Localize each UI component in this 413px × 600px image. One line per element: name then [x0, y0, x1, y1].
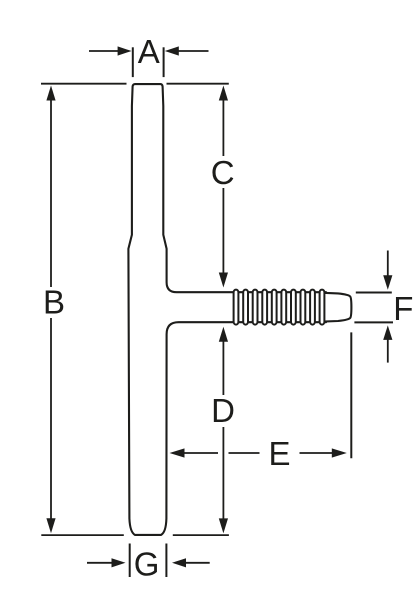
- svg-text:B: B: [43, 284, 65, 321]
- dim B arrow line upper: [50, 99, 52, 287]
- svg-text:D: D: [211, 392, 235, 429]
- dim G right arrow: [184, 562, 210, 564]
- dim G left tick: [129, 544, 131, 578]
- dim E line right segment + arrow: [300, 452, 334, 454]
- bottom extension line right segment: [173, 534, 229, 536]
- dim E arrow left: [183, 452, 218, 454]
- dim C arrow line lower: [222, 188, 224, 274]
- dim A right tick: [163, 47, 165, 77]
- svg-text:F: F: [393, 290, 413, 327]
- dim A right arrow: [178, 50, 209, 52]
- dim E line mid segment: [229, 452, 260, 454]
- dim F bottom extension line: [354, 321, 393, 323]
- dim A left arrow: [89, 50, 119, 52]
- svg-text:A: A: [138, 33, 160, 70]
- svg-text:G: G: [134, 545, 160, 582]
- dim F top extension line: [356, 292, 392, 294]
- top extension line left segment: [41, 83, 127, 85]
- hose barb tip: [320, 293, 351, 322]
- dim C arrow line upper: [222, 99, 224, 156]
- dim D arrow line lower: [222, 427, 224, 520]
- dim G right tick: [165, 544, 167, 578]
- dim E extension line from barb tip: [350, 332, 352, 458]
- svg-text:E: E: [268, 435, 290, 472]
- top extension line right segment: [167, 83, 229, 85]
- glass T-tube body outline: [128, 84, 326, 535]
- dim D arrow line upper: [222, 340, 224, 395]
- dim F top arrow: [387, 251, 389, 278]
- dim G left arrow: [87, 562, 113, 564]
- svg-text:C: C: [211, 154, 235, 191]
- serration ribs (10): [234, 290, 325, 325]
- bottom extension line left segment: [41, 534, 124, 536]
- dim A left tick: [132, 47, 134, 77]
- dim F bottom arrow: [387, 338, 389, 363]
- dim B arrow line lower: [50, 318, 52, 520]
